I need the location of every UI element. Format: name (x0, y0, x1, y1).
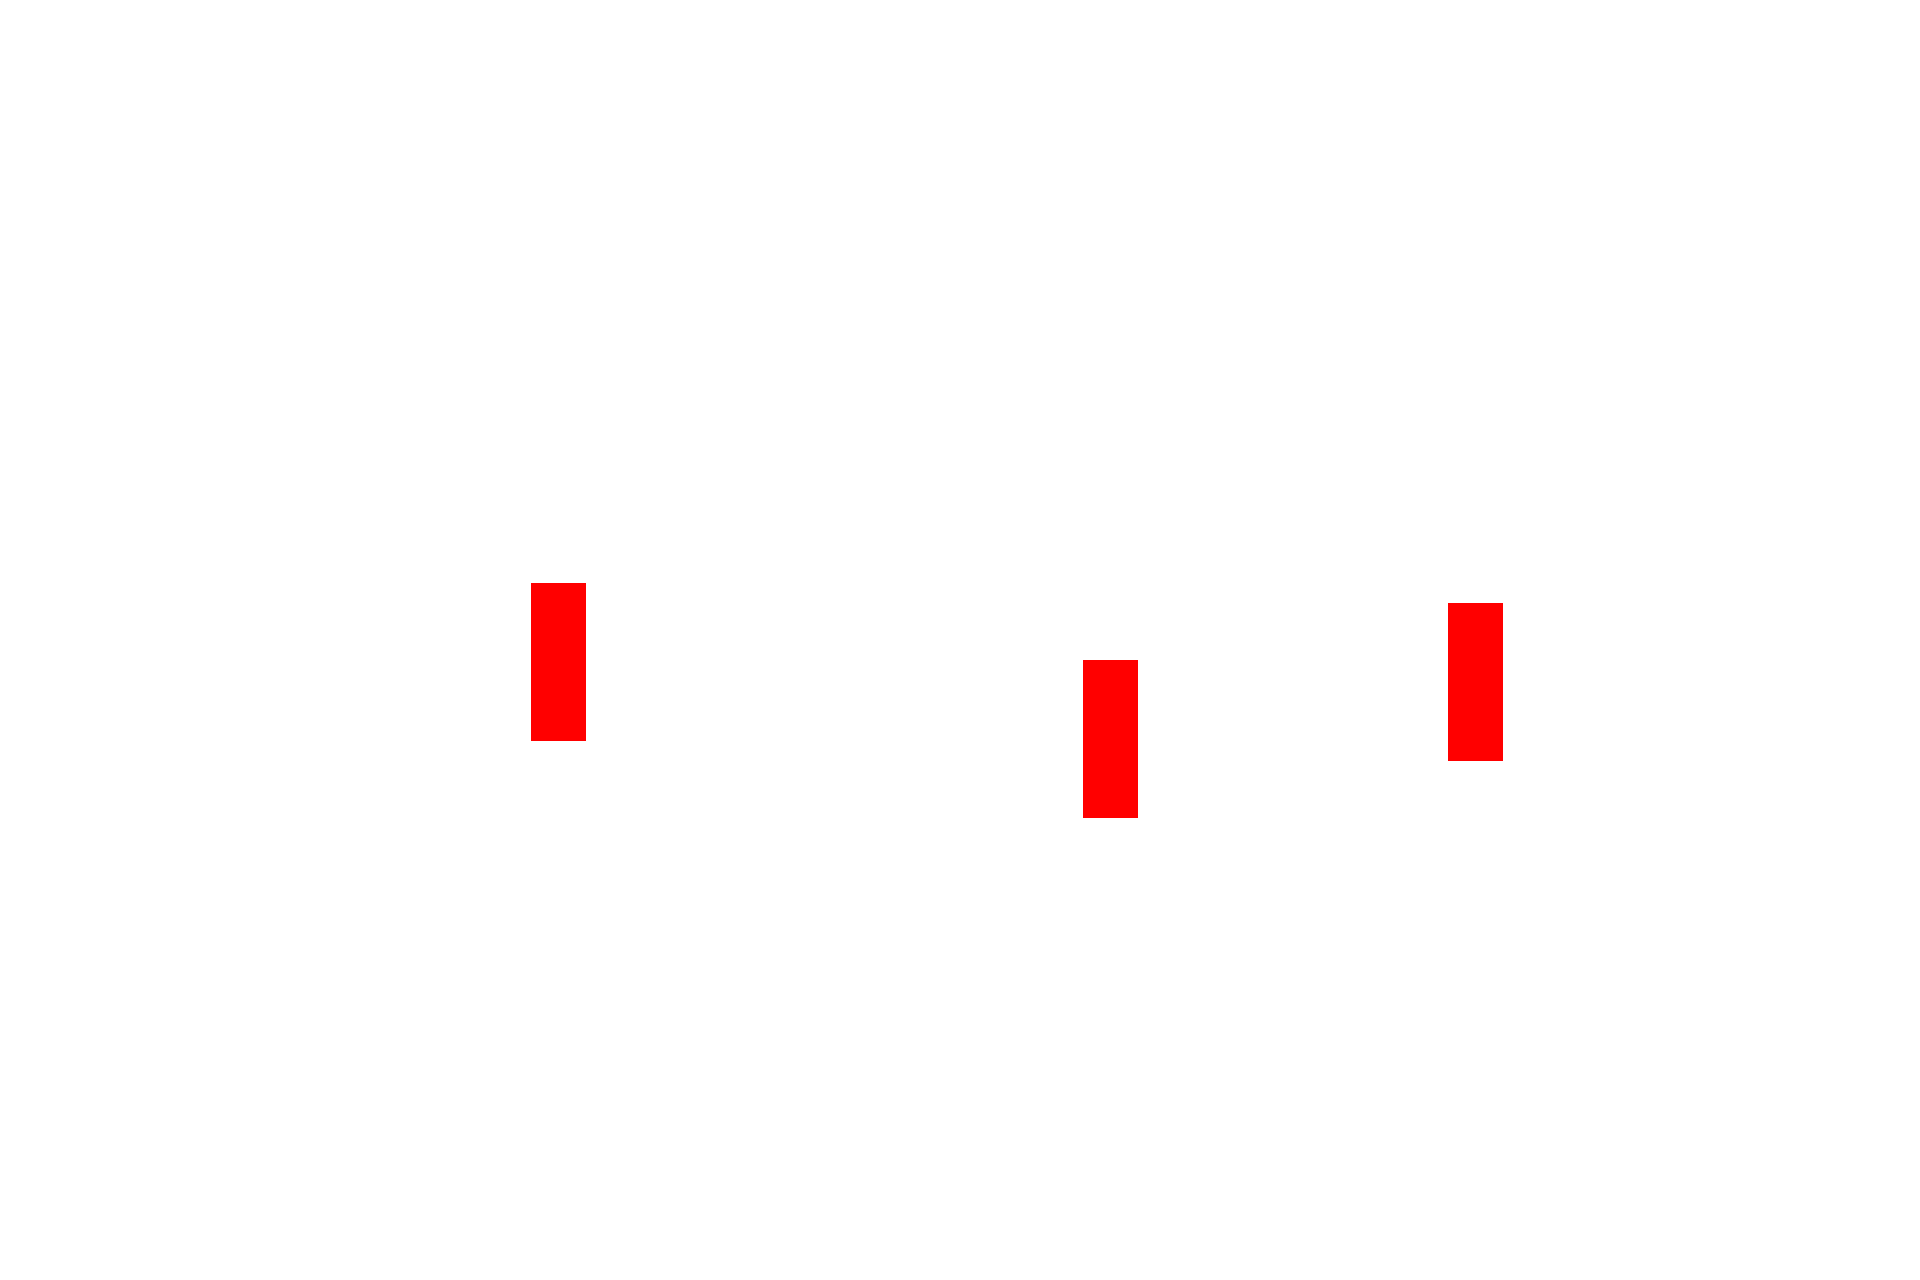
red candle bar 2 (1083, 660, 1138, 818)
red candle bar 3 (1448, 603, 1503, 761)
red candle bar 1 (531, 583, 586, 741)
